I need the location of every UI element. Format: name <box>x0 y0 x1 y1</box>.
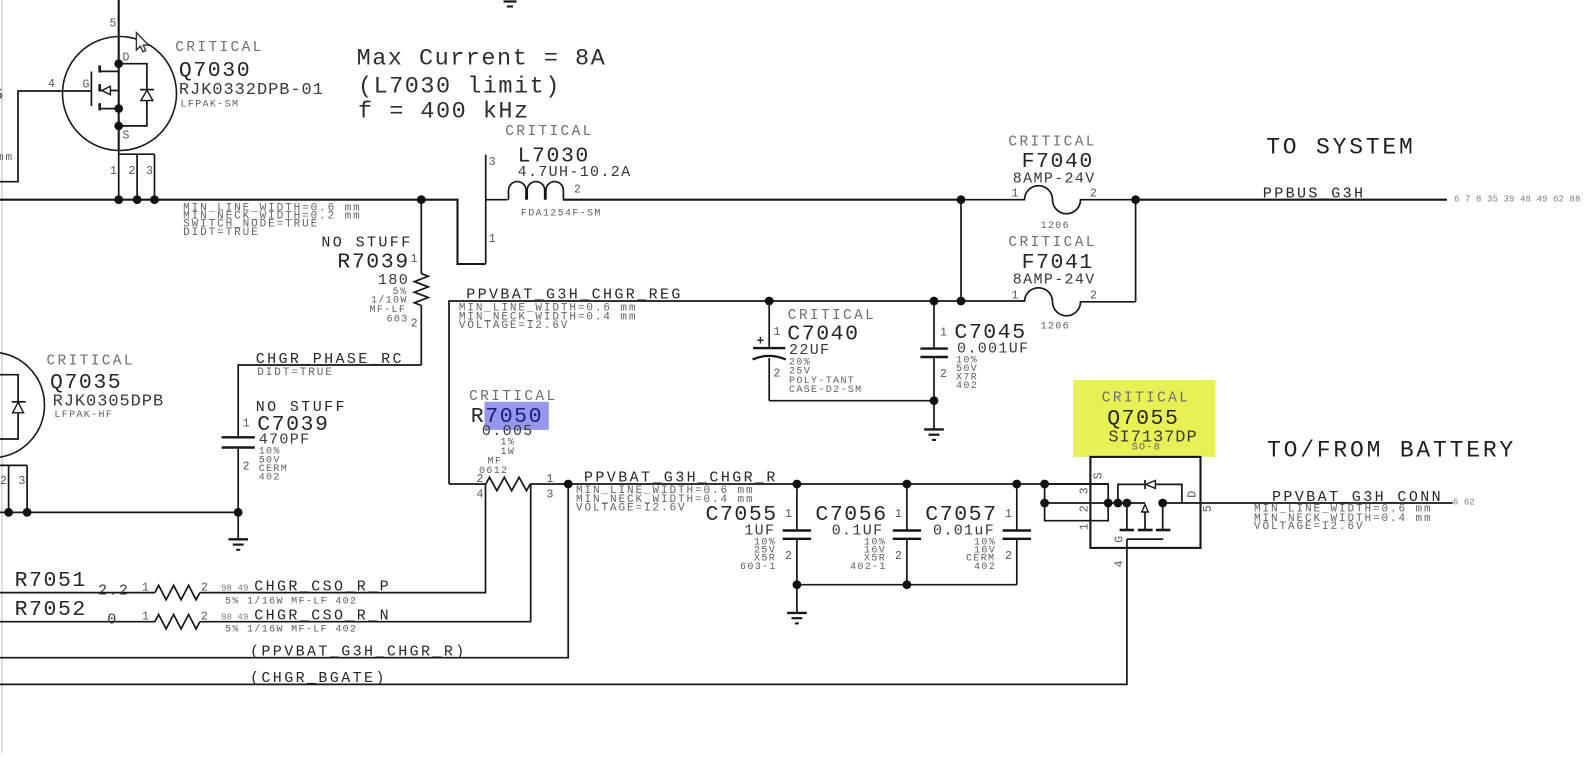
transistor Q7035 <box>0 353 45 457</box>
wire Q7035 pins 2 3 <box>0 465 27 512</box>
svg-text:CRITICAL: CRITICAL <box>175 40 263 56</box>
wire Q7030 pins 1 2 3 to switch node <box>119 150 155 200</box>
svg-text:RJK0332DPB-01: RJK0332DPB-01 <box>179 81 324 100</box>
junction S tie mid <box>1040 499 1049 508</box>
svg-text:402-1: 402-1 <box>850 562 887 573</box>
svg-text:R7051: R7051 <box>15 569 87 593</box>
svg-text:VOLTAGE=I2.6V: VOLTAGE=I2.6V <box>1254 521 1365 533</box>
highlight selection box on R7050 <box>485 402 549 430</box>
svg-text:(L7030 limit): (L7030 limit) <box>358 74 561 101</box>
svg-text:(PPVBAT_G3H_CHGR_R): (PPVBAT_G3H_CHGR_R) <box>250 643 467 660</box>
svg-text:1: 1 <box>1012 289 1019 302</box>
svg-text:FDA1254F-SM: FDA1254F-SM <box>521 209 602 220</box>
capacitor C7056 <box>893 484 921 585</box>
junction C7045 top <box>930 297 939 306</box>
svg-text:1: 1 <box>243 418 250 431</box>
svg-text:LFPAK-HF: LFPAK-HF <box>54 410 113 421</box>
svg-text:1: 1 <box>940 327 947 340</box>
junction F7040 pin2 to PPBUS <box>1131 195 1140 204</box>
junction bus at F7040 pin1 <box>957 195 966 204</box>
svg-text:CRITICAL: CRITICAL <box>1008 135 1096 151</box>
svg-text:1: 1 <box>1005 508 1012 521</box>
capacitor C7040 <box>753 301 786 401</box>
junction C7039 bottom <box>234 508 243 517</box>
junction Q7035 pin3 <box>23 508 32 517</box>
svg-text:2: 2 <box>1005 550 1012 563</box>
junction C7045 bottom <box>930 396 939 405</box>
ground below C7055 <box>787 585 807 624</box>
svg-text:5% 1/16W MF-LF 402: 5% 1/16W MF-LF 402 <box>225 596 357 608</box>
svg-text:0: 0 <box>107 612 117 629</box>
svg-text:603: 603 <box>387 314 409 325</box>
svg-text:S: S <box>1093 472 1106 479</box>
junction Q7030 pin1 on bus <box>114 195 123 204</box>
resistor R7052 <box>0 484 531 629</box>
svg-text:CHGR_CSO_R_N: CHGR_CSO_R_N <box>254 607 391 624</box>
capacitor C7039 <box>222 437 255 512</box>
svg-text:4.7UH-10.2A: 4.7UH-10.2A <box>518 164 632 181</box>
svg-text:SO-8: SO-8 <box>1132 443 1161 454</box>
junction R7039 on bus <box>417 195 426 204</box>
svg-text:CHGR_CSO_R_P: CHGR_CSO_R_P <box>254 578 391 595</box>
wire net (PPVBAT_G3H_CHGR_R) <box>0 484 568 658</box>
capacitor C7045 <box>920 301 948 401</box>
capacitor C7055 <box>783 484 811 585</box>
svg-text:2: 2 <box>785 550 792 563</box>
svg-text:1: 1 <box>142 610 149 623</box>
junction pin3 bar <box>1104 499 1113 508</box>
svg-text:3: 3 <box>1079 487 1092 494</box>
svg-text:3: 3 <box>19 475 26 488</box>
svg-text:mm: mm <box>0 152 14 164</box>
svg-text:2: 2 <box>477 473 484 486</box>
svg-text:CRITICAL: CRITICAL <box>47 354 135 370</box>
svg-text:VOLTAGE=I2.6V: VOLTAGE=I2.6V <box>576 503 687 515</box>
svg-text:8AMP-24V: 8AMP-24V <box>1013 171 1096 188</box>
svg-text:4: 4 <box>1114 561 1127 568</box>
svg-text:Q7030: Q7030 <box>179 59 251 83</box>
mouse cursor <box>136 33 148 52</box>
svg-text:VOLTAGE=I2.6V: VOLTAGE=I2.6V <box>459 320 570 332</box>
svg-text:1: 1 <box>774 326 781 339</box>
svg-text:2: 2 <box>774 368 781 381</box>
svg-text:2: 2 <box>1090 188 1097 201</box>
svg-text:S: S <box>123 130 130 143</box>
svg-text:2: 2 <box>1079 505 1092 512</box>
svg-text:1: 1 <box>895 508 902 521</box>
body diode of Q7055 <box>1118 480 1182 503</box>
sheet edge line <box>1 0 3 753</box>
junction C7056 bottom <box>903 580 912 589</box>
svg-text:TO/FROM BATTERY: TO/FROM BATTERY <box>1267 438 1516 464</box>
node source tap of Q7030 <box>114 104 123 113</box>
svg-text:1: 1 <box>1079 523 1092 530</box>
svg-text:3: 3 <box>489 156 496 169</box>
svg-text:RJK0305DPB: RJK0305DPB <box>53 393 165 412</box>
wire Q7030 gate from off-page <box>0 91 91 182</box>
svg-text:5% 1/16W MF-LF 402: 5% 1/16W MF-LF 402 <box>225 624 357 636</box>
junction bus drop on CHGR_REG <box>957 297 966 306</box>
svg-text:1: 1 <box>489 233 496 246</box>
svg-text:D: D <box>123 52 130 65</box>
wire C7040 C7045 bottoms <box>769 400 934 402</box>
svg-text:DIDT=TRUE: DIDT=TRUE <box>183 227 260 239</box>
svg-text:CRITICAL: CRITICAL <box>505 124 593 140</box>
wire net PPVBAT_G3H_CHGR_REG <box>449 301 1025 484</box>
junction drain contact <box>1158 499 1167 508</box>
svg-text:4: 4 <box>48 78 55 91</box>
resistor R7050 <box>449 477 568 490</box>
highlight box of Q7055 <box>1073 380 1215 457</box>
resistor R7051 <box>0 484 486 600</box>
wire net to Q7055 source <box>1045 502 1145 504</box>
svg-text:R7039: R7039 <box>337 250 409 274</box>
ground below C7045 <box>924 401 944 440</box>
svg-text:2: 2 <box>201 581 208 594</box>
svg-text:2: 2 <box>1090 289 1097 302</box>
resistor R7039 <box>414 200 428 365</box>
junction source contact <box>1123 499 1132 508</box>
svg-text:3: 3 <box>547 489 554 502</box>
svg-text:1: 1 <box>1012 188 1019 201</box>
svg-text:G: G <box>83 79 90 92</box>
mosfet internals of Q7055 <box>1120 503 1171 539</box>
svg-text:98 49: 98 49 <box>221 612 249 622</box>
svg-text:1: 1 <box>547 473 554 486</box>
wire Q7055 S pins tie <box>1045 484 1109 521</box>
junction CHGR_R sense tap <box>564 480 573 489</box>
junction C7057 top <box>1012 480 1021 489</box>
ground (cut off at top edge) <box>504 2 517 7</box>
body diode of Q7030 <box>119 64 154 126</box>
svg-text:2: 2 <box>895 550 902 563</box>
svg-text:3: 3 <box>146 165 153 178</box>
svg-text:4: 4 <box>477 489 484 502</box>
svg-text:PPBUS_G3H: PPBUS_G3H <box>1263 185 1366 202</box>
wire net PPVBAT_G3H_CHGR_R <box>568 483 1108 485</box>
svg-text:2: 2 <box>940 368 947 381</box>
svg-text:2.2: 2.2 <box>98 582 129 599</box>
svg-text:(CHGR_BGATE): (CHGR_BGATE) <box>250 670 387 687</box>
svg-text:6 7 8 35 39 48 49 62 88: 6 7 8 35 39 48 49 62 88 <box>1454 195 1581 205</box>
svg-text:5: 5 <box>110 18 117 31</box>
svg-text:R7052: R7052 <box>15 598 87 622</box>
transistor Q7030 <box>63 0 177 151</box>
fuse F7041 <box>1025 200 1136 316</box>
attribute text of PPVBAT_G3H_CHGR_R <box>576 485 755 515</box>
wire Q7055 drain to conn <box>1163 502 1453 504</box>
svg-text:TO SYSTEM: TO SYSTEM <box>1266 135 1415 161</box>
svg-text:G: G <box>1114 536 1127 543</box>
wire Q7035 source to C7039 ground net <box>0 511 238 513</box>
svg-text:2: 2 <box>574 184 581 197</box>
svg-text:Q7035: Q7035 <box>50 371 122 395</box>
attribute text of switch node <box>183 202 362 239</box>
junction Q7030 pin2 on bus <box>133 195 142 204</box>
junction C7055 bottom <box>793 580 802 589</box>
capacitor C7057 <box>1003 484 1031 585</box>
svg-text:CHGR_PHASE_RC: CHGR_PHASE_RC <box>256 351 404 368</box>
wire Q7055 gate to CHGR_BGATE <box>0 539 1127 684</box>
svg-text:5: 5 <box>0 87 4 104</box>
wire switch-node bus <box>0 200 486 264</box>
wire L7030 pin2 to fuses <box>563 199 961 201</box>
junction diode tap <box>1114 499 1123 508</box>
svg-text:1: 1 <box>785 508 792 521</box>
svg-text:2: 2 <box>0 475 7 488</box>
wire net CHGR_PHASE_RC <box>238 365 421 437</box>
svg-text:PPVBAT_G3H_CHGR_REG: PPVBAT_G3H_CHGR_REG <box>466 287 683 304</box>
svg-text:D: D <box>1186 491 1199 498</box>
svg-text:1: 1 <box>110 165 117 178</box>
svg-text:+: + <box>757 334 765 349</box>
svg-text:603-1: 603-1 <box>740 562 777 573</box>
svg-text:0612: 0612 <box>479 466 508 477</box>
svg-text:1: 1 <box>411 253 418 266</box>
transistor Q7055 package box <box>1090 457 1200 548</box>
svg-text:1: 1 <box>142 581 149 594</box>
junction C7040 top <box>765 297 774 306</box>
svg-text:98 49: 98 49 <box>221 583 249 593</box>
svg-text:2: 2 <box>201 610 208 623</box>
wire net PPBUS_G3H <box>1136 199 1447 201</box>
svg-text:NO STUFF: NO STUFF <box>321 235 412 252</box>
node S of Q7030 <box>114 122 123 131</box>
svg-text:2: 2 <box>243 461 250 474</box>
note text max current <box>357 46 607 126</box>
svg-text:f = 400 kHz: f = 400 kHz <box>358 99 530 126</box>
wire capacitor bottoms <box>797 584 1017 586</box>
ground below C7039 <box>228 512 248 549</box>
svg-text:CRITICAL: CRITICAL <box>1102 390 1190 406</box>
svg-text:2: 2 <box>129 165 136 178</box>
svg-text:1206: 1206 <box>1041 321 1070 332</box>
svg-text:DIDT=TRUE: DIDT=TRUE <box>257 367 334 379</box>
svg-text:5: 5 <box>1202 505 1215 512</box>
junction C7056 top <box>903 480 912 489</box>
junction Q7055 S tie top <box>1040 480 1049 489</box>
junction Q7030 pin3 on bus <box>150 195 159 204</box>
svg-text:1206: 1206 <box>1041 221 1070 232</box>
inductor L7030 <box>486 155 564 264</box>
svg-text:Max Current = 8A: Max Current = 8A <box>357 46 607 73</box>
attribute text of PPVBAT_G3H_CHGR_REG <box>459 303 638 333</box>
svg-text:LFPAK-SM: LFPAK-SM <box>181 100 240 111</box>
svg-text:402: 402 <box>259 473 281 484</box>
attribute text of PPVBAT_G3H_CONN <box>1254 504 1433 534</box>
svg-text:8AMP-24V: 8AMP-24V <box>1013 271 1096 288</box>
junction C7055 top <box>793 480 802 489</box>
svg-text:402: 402 <box>974 562 996 573</box>
svg-text:CRITICAL: CRITICAL <box>1008 235 1096 251</box>
svg-text:402: 402 <box>956 381 978 392</box>
node D of Q7030 <box>114 59 123 68</box>
svg-text:CASE-D2-SM: CASE-D2-SM <box>789 385 863 396</box>
svg-text:2: 2 <box>411 318 418 331</box>
junction Q7035 pin2 <box>4 508 13 517</box>
svg-text:1W: 1W <box>501 447 516 458</box>
wire vertical between bus and CHGR_REG <box>960 200 962 301</box>
fuse F7040 <box>961 186 1136 214</box>
svg-text:6 62: 6 62 <box>1453 497 1475 507</box>
